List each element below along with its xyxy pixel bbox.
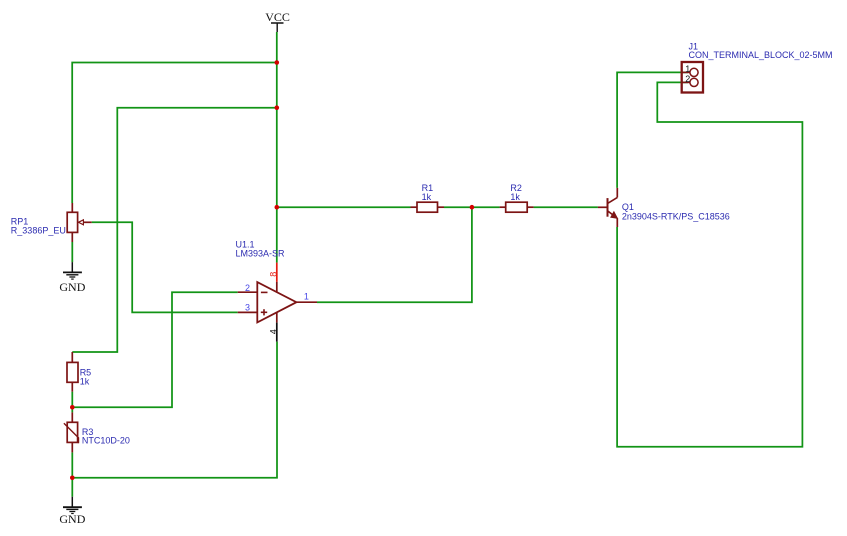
junction dot VCC/R5 [275,105,280,110]
power flag VCC [265,10,290,32]
potentiometer RP1 [67,203,92,242]
U1 pin 8 (V+) [276,263,278,282]
junction dot R5/R3 node [70,405,75,410]
wire Q1 emitter loop to J1 pin 2 [617,82,802,446]
wire net VCC to RP1 top [72,63,277,204]
ground GND (lower) [59,497,85,526]
wire VCC vertical rail [276,32,278,263]
wire R5 bottom to R3 top [71,392,73,413]
svg-text:NTC10D-20: NTC10D-20 [82,436,130,446]
svg-text:1k: 1k [80,377,90,387]
wire Q1 collector to J1 pin 1 [617,72,688,187]
resistor R1 [411,202,445,212]
wire U1 pin 2 to R5/R3 node [72,292,237,407]
svg-text:1: 1 [304,292,309,302]
junction dot R3/GND node [70,476,75,481]
svg-text:LM393A-SR: LM393A-SR [236,248,286,258]
svg-text:2: 2 [685,74,690,84]
svg-text:GND: GND [59,280,85,294]
svg-text:8: 8 [269,272,279,277]
wire U1 pin 1 output to R1/R2 node [317,207,472,302]
svg-text:1k: 1k [422,192,432,202]
junction dot VCC/RP1 [275,60,280,65]
op-amp U1 [257,282,296,322]
svg-text:2n3904S-RTK/PS_C18536: 2n3904S-RTK/PS_C18536 [622,211,730,221]
U1 pin 2 (inverting input) [238,291,258,293]
wire R1 right to R2 left [444,206,500,208]
svg-text:3: 3 [245,303,250,313]
wire U1 pin 4 to GND net [72,342,277,478]
U1 pin 3 (non-inverting input) [238,311,258,313]
svg-text:GND: GND [59,512,85,526]
resistor R5 [67,352,78,392]
wire RP1 bottom to GND [71,242,73,262]
svg-text:1k: 1k [510,192,520,202]
wire R3 bottom to GND [71,452,73,496]
transistor Q1 [598,188,618,227]
wire net VCC to R5 top [72,108,276,352]
svg-text:CON_TERMINAL_BLOCK_02-5MM: CON_TERMINAL_BLOCK_02-5MM [689,50,833,60]
svg-text:4: 4 [269,329,279,334]
ground GND (upper, below RP1) [59,262,85,294]
thermistor R3 [64,412,79,452]
svg-text:VCC: VCC [265,10,290,24]
svg-text:2: 2 [245,283,250,293]
U1 pin 1 (output) [296,301,317,303]
wire R2 right to Q1 base [534,206,598,208]
wire RP1 wiper to U1 pin 3 [92,222,238,312]
wire VCC rail to R1 left [277,206,411,208]
svg-text:1: 1 [685,64,690,74]
U1 pin 4 (V-) [276,312,278,322]
svg-text:R_3386P_EU: R_3386P_EU [11,226,66,236]
junction dot VCC/R1 [275,205,280,210]
connector J1 [682,62,703,93]
junction dot R1/R2/output [470,205,475,210]
resistor R2 [500,202,534,212]
